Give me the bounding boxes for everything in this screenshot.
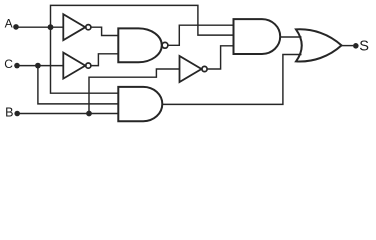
wire B horizontal to AND U6 input 3 [17, 113, 118, 115]
terminal dot C [14, 63, 20, 69]
wire U7 output to S [342, 45, 354, 47]
wire C junction down, right to AND U6 input 2 [38, 66, 118, 104]
wire U1 output to NAND U4 input 1 [91, 27, 118, 35]
svg-text:A: A [5, 17, 13, 31]
svg-text:S: S [359, 39, 369, 55]
wire A junction up, top rail, down to AND U5 input 2 [51, 5, 234, 35]
wire A junction down, right to AND U6 input 1 [51, 27, 119, 93]
terminal dot B [14, 111, 20, 117]
node C junction [35, 63, 41, 69]
inverter U1 (A) [63, 14, 91, 40]
wire A horizontal [16, 26, 63, 28]
OR U7 [296, 29, 342, 61]
inverter U2 (C) [63, 53, 91, 79]
svg-text:C: C [4, 57, 13, 71]
terminal dot A [13, 24, 19, 30]
AND U6 (bottom) [118, 87, 162, 121]
wire U5 output to OR U7 input 1 [280, 36, 301, 38]
node B junction [86, 111, 92, 117]
node A junction [48, 24, 54, 30]
AND U5 (top right) [234, 19, 281, 54]
wire C horizontal [17, 65, 63, 67]
NAND U4 [118, 28, 168, 62]
wire U4 output up, right to AND U5 input 1 [168, 25, 234, 45]
wire B junction up, right, up to inverter U3 input [89, 69, 180, 114]
terminal dot S [353, 43, 359, 49]
wire U3 output up to AND U5 input 3 [207, 46, 233, 69]
wire U2 output up to NAND U4 input 2 [91, 54, 118, 66]
inverter U3 (middle) [180, 56, 208, 82]
svg-text:B: B [5, 106, 13, 120]
wire U6 output right, up to OR U7 input 2 [162, 55, 301, 105]
